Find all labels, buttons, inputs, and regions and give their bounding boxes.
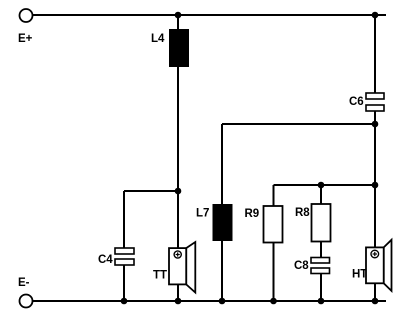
wire top horizontal E+ to top right — [33, 14, 386, 16]
wire horizontal C4 branch — [124, 190, 178, 192]
wire R8 top lead — [320, 185, 322, 204]
wire L4 top lead — [177, 15, 179, 30]
resistor R9 — [264, 206, 283, 243]
terminal E+ — [20, 9, 33, 22]
svg-text:HT: HT — [352, 269, 367, 281]
capacitor C4 — [115, 248, 134, 265]
capacitor C8 — [311, 258, 330, 274]
inductor L7 — [213, 204, 233, 241]
wire right vertical C6 top lead — [374, 15, 376, 93]
node R8 tap — [318, 182, 325, 189]
svg-text:C6: C6 — [349, 96, 364, 108]
speaker HT — [366, 240, 392, 291]
wire TT top lead — [177, 191, 179, 248]
node top right — [372, 12, 379, 19]
resistor R8 — [312, 204, 331, 242]
node bottom HT — [372, 298, 379, 305]
wire bottom horizontal — [33, 300, 386, 302]
wire R8 to C8 — [320, 242, 322, 259]
wire L7 top lead — [221, 124, 223, 204]
inductor L4 — [169, 29, 189, 67]
svg-text:R9: R9 — [245, 208, 260, 220]
wire C8 bottom lead — [320, 274, 322, 302]
svg-text:E-: E- — [18, 277, 30, 289]
svg-text:E+: E+ — [18, 33, 33, 45]
node bottom TT — [175, 298, 182, 305]
wire C4 bottom lead — [123, 265, 125, 301]
svg-text:C4: C4 — [98, 254, 113, 266]
node R network on HT line — [372, 182, 379, 189]
node bottom C4 — [121, 298, 128, 305]
svg-text:L7: L7 — [196, 208, 209, 220]
wire L7 bottom lead — [221, 241, 223, 301]
wire HT bottom lead — [374, 283, 376, 301]
node bottom C8 — [318, 298, 325, 305]
wire horizontal L7 branch — [222, 123, 375, 125]
wire horizontal R9/R8 branch — [274, 184, 376, 186]
capacitor C6 — [366, 93, 384, 111]
speaker TT — [169, 242, 195, 293]
svg-text:L4: L4 — [151, 33, 165, 45]
svg-text:R8: R8 — [295, 207, 310, 219]
node top L4 tap — [175, 12, 182, 19]
wire R9 top lead — [273, 185, 275, 206]
wire C6 bottom lead — [374, 111, 376, 124]
svg-text:TT: TT — [153, 270, 167, 282]
terminal E- — [20, 295, 33, 308]
node bottom R9 — [270, 298, 277, 305]
svg-text:C8: C8 — [294, 260, 309, 272]
node bottom L7 — [219, 298, 226, 305]
wire TT bottom lead — [177, 284, 179, 301]
wire R9 bottom lead — [273, 243, 275, 302]
node C6 bottom / L7 branch — [372, 121, 379, 128]
node C4/TT tap — [175, 188, 182, 195]
wire vertical HT line mid — [374, 124, 376, 185]
wire C4 top lead — [123, 191, 125, 248]
wire L4 bottom to C4/TT node — [177, 67, 179, 191]
wire HT top lead — [374, 185, 376, 247]
